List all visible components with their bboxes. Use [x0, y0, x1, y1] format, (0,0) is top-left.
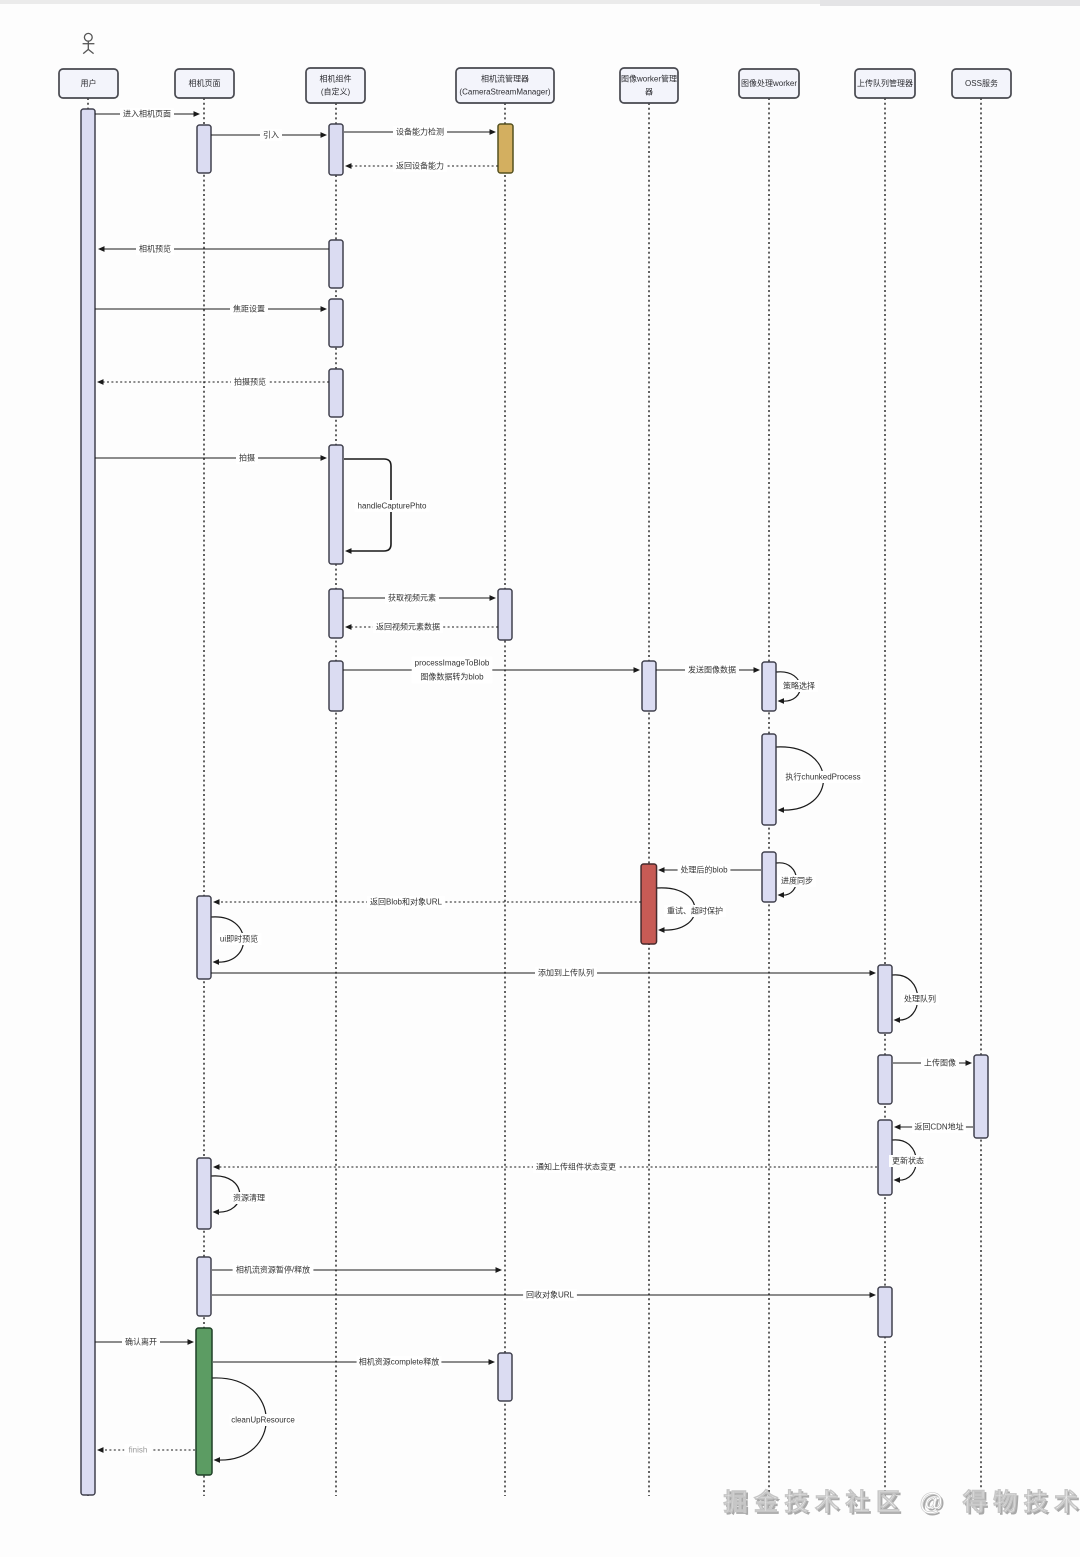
svg-text:引入: 引入	[263, 131, 279, 140]
svg-text:设备能力检测: 设备能力检测	[396, 127, 444, 137]
activation 图像处理worker 接收	[762, 662, 776, 711]
svg-text:资源清理: 资源清理	[233, 1193, 265, 1203]
activation 相机页面 离开 (green)	[196, 1328, 212, 1475]
svg-text:相机资源complete释放: 相机资源complete释放	[359, 1357, 439, 1367]
message 返回CDN地址	[894, 1121, 973, 1133]
message 获取视频元素	[343, 592, 496, 604]
svg-text:回收对象URL: 回收对象URL	[526, 1290, 575, 1300]
message 设备能力检测	[344, 126, 496, 138]
svg-text:焦距设置: 焦距设置	[233, 304, 265, 314]
svg-text:(自定义): (自定义)	[321, 87, 351, 97]
svg-text:发送图像数据: 发送图像数据	[688, 665, 736, 675]
self message 资源清理	[212, 1176, 269, 1215]
activation 相机流管理器 设备检测 (gold)	[498, 124, 513, 173]
self message 处理队列	[893, 975, 940, 1023]
svg-text:processImageToBlob: processImageToBlob	[415, 658, 490, 667]
svg-text:相机流管理器: 相机流管理器	[481, 74, 529, 84]
lifeline OSS服务	[980, 98, 982, 1496]
participant 上传队列管理器	[855, 69, 915, 98]
message 相机流资源暂停/释放	[212, 1264, 502, 1276]
svg-text:OSS服务: OSS服务	[965, 78, 998, 88]
svg-text:返回设备能力: 返回设备能力	[396, 161, 444, 171]
message 引入	[211, 129, 327, 141]
lifeline 用户	[87, 98, 89, 1496]
message 返回设备能力 (return)	[345, 160, 498, 172]
message 通知上传组件状态变更 (return)	[213, 1161, 877, 1173]
svg-text:返回视频元素数据: 返回视频元素数据	[376, 622, 440, 632]
message 上传图像	[893, 1057, 972, 1069]
activation 相机组件 拍摄	[329, 445, 343, 564]
svg-text:图像处理worker: 图像处理worker	[741, 78, 797, 88]
participant 相机组件(自定义)	[306, 68, 365, 103]
message 返回视频元素数据 (return)	[345, 621, 498, 633]
activation 上传队列管理器 回收	[878, 1287, 892, 1337]
lifeline 图像处理worker	[768, 98, 770, 1496]
svg-text:上传图像: 上传图像	[924, 1058, 956, 1068]
message 进入相机页面	[95, 108, 200, 120]
lifeline 图像worker管理器	[648, 103, 650, 1496]
svg-text:handleCapturePhto: handleCapturePhto	[358, 502, 427, 511]
activation 图像worker管理器 重试超时 (red)	[641, 864, 657, 944]
activation 相机页面 状态变更	[197, 1158, 211, 1229]
self message 策略选择	[777, 672, 819, 704]
lifeline 相机组件	[335, 103, 337, 1496]
svg-text:进入相机页面: 进入相机页面	[123, 109, 171, 119]
activation 上传队列管理器 CDN	[878, 1120, 892, 1195]
activation 图像worker管理器 发送图像数据	[642, 661, 656, 711]
svg-text:通知上传组件状态变更: 通知上传组件状态变更	[536, 1162, 616, 1172]
svg-text:更新状态: 更新状态	[892, 1156, 924, 1166]
watermark 掘金技术社区 @ 得物技术	[723, 1488, 1080, 1518]
participant 相机流管理器(CameraStreamManager)	[456, 68, 554, 103]
self message 重试、超时保护	[657, 888, 726, 933]
activation OSS服务 上传	[974, 1055, 988, 1138]
self message 执行chunkedProcess	[777, 747, 863, 813]
message 相机资源complete释放	[213, 1356, 495, 1368]
activation 图像处理worker chunkedProcess	[762, 734, 776, 825]
message 处理后的blob	[658, 864, 761, 876]
message 发送图像数据	[656, 664, 760, 676]
message 返回Blob和对象URL (return)	[213, 896, 641, 908]
svg-text:ui即时预览: ui即时预览	[220, 934, 258, 944]
message 焦距设置	[95, 303, 327, 315]
lifeline 相机页面	[203, 98, 205, 1496]
svg-text:相机预览: 相机预览	[139, 244, 171, 254]
self message handleCapturePhto	[344, 459, 430, 554]
participant 图像worker管理器	[620, 68, 678, 103]
activation 上传队列管理器 上传	[878, 1055, 892, 1104]
self message ui即时预览	[212, 917, 262, 965]
svg-text:cleanUpResource: cleanUpResource	[231, 1416, 295, 1425]
svg-text:图像数据转为blob: 图像数据转为blob	[420, 672, 484, 682]
svg-text:拍摄预览: 拍摄预览	[234, 377, 266, 387]
message processImageToBlob 图像数据转为blob	[343, 657, 640, 684]
participant 图像处理worker	[739, 69, 799, 98]
message 添加到上传队列	[211, 967, 876, 979]
self message 更新状态	[889, 1140, 927, 1183]
svg-text:上传队列管理器: 上传队列管理器	[857, 78, 913, 88]
svg-text:相机组件: 相机组件	[320, 74, 352, 84]
message 拍摄预览 (return)	[97, 376, 329, 388]
activation 相机页面 预览	[197, 896, 211, 979]
participant 用户	[59, 69, 118, 98]
svg-text:进度同步: 进度同步	[781, 876, 813, 886]
self message 进度同步	[777, 863, 817, 898]
svg-text:重试、超时保护: 重试、超时保护	[667, 906, 723, 916]
activation 相机页面 资源释放	[197, 1257, 211, 1316]
lifeline 上传队列管理器	[884, 98, 886, 1496]
message 确认离开	[95, 1336, 194, 1348]
activation 相机流管理器 视频元素	[498, 589, 512, 640]
svg-text:返回CDN地址: 返回CDN地址	[914, 1122, 963, 1132]
svg-text:用户: 用户	[81, 78, 97, 88]
svg-text:图像worker管理: 图像worker管理	[621, 74, 677, 84]
svg-text:处理后的blob: 处理后的blob	[680, 865, 728, 875]
svg-text:finish: finish	[129, 1446, 148, 1455]
svg-text:策略选择: 策略选择	[783, 681, 815, 691]
message 相机预览	[98, 243, 329, 255]
svg-text:确认离开: 确认离开	[125, 1337, 157, 1347]
activation 相机组件 拍摄预览	[329, 369, 343, 417]
activation 图像处理worker 返回blob	[762, 852, 776, 902]
svg-text:获取视频元素: 获取视频元素	[388, 593, 436, 603]
svg-text:执行chunkedProcess: 执行chunkedProcess	[785, 772, 860, 782]
activation 相机组件 init	[329, 124, 343, 175]
svg-text:掘金技术社区 @ 得物技术: 掘金技术社区 @ 得物技术	[723, 1488, 1080, 1516]
activation 相机流管理器 complete释放	[498, 1353, 512, 1401]
svg-text:处理队列: 处理队列	[904, 994, 936, 1004]
lifeline 相机流管理器	[504, 103, 506, 1496]
message 回收对象URL	[212, 1289, 876, 1301]
message finish (return)	[97, 1444, 195, 1456]
svg-text:拍摄: 拍摄	[239, 453, 255, 463]
svg-text:返回Blob和对象URL: 返回Blob和对象URL	[370, 897, 443, 907]
activation 相机组件 相机预览	[329, 240, 343, 288]
activation 相机组件 获取视频元素	[329, 589, 343, 638]
activation 相机页面 init	[197, 125, 211, 173]
activation 上传队列管理器 队列	[878, 965, 892, 1033]
svg-text:相机流资源暂停/释放: 相机流资源暂停/释放	[236, 1265, 310, 1275]
message 拍摄	[95, 452, 327, 464]
activation 相机组件 processImageToBlob	[329, 661, 343, 711]
svg-text:(CameraStreamManager): (CameraStreamManager)	[459, 88, 550, 97]
svg-text:添加到上传队列: 添加到上传队列	[538, 968, 594, 978]
self message cleanUpResource	[213, 1378, 297, 1463]
activation 用户 main	[81, 109, 95, 1495]
svg-text:器: 器	[645, 88, 653, 97]
participant OSS服务	[952, 69, 1011, 98]
activation 相机组件 焦距设置	[329, 299, 343, 347]
svg-text:相机页面: 相机页面	[189, 78, 221, 88]
actor figure 用户	[83, 33, 95, 53]
participant 相机页面	[175, 69, 234, 98]
